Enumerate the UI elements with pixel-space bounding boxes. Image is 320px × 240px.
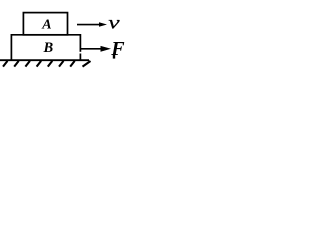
force arrow F [81, 48, 103, 50]
svg-text:A: A [41, 18, 51, 33]
velocity arrow v [77, 24, 100, 26]
block A (box on top) [23, 13, 67, 35]
F stem descender mark [113, 55, 115, 59]
block B (lower box: left, top, right sides) [11, 35, 80, 61]
background [0, 0, 134, 80]
svg-text:v: v [108, 12, 120, 32]
ground hatching [3, 61, 91, 67]
svg-text:F: F [110, 38, 125, 60]
svg-text:B: B [43, 40, 54, 56]
scan gap in B right edge [79, 52, 81, 54]
ground line [0, 59, 89, 61]
